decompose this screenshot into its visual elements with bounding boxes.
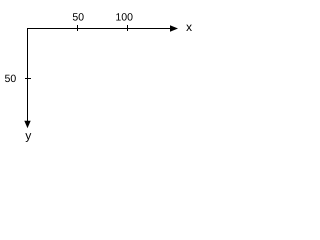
y-axis arrowhead	[24, 121, 30, 128]
x-axis arrowhead	[170, 25, 178, 31]
label 100 (x-axis)	[116, 13, 132, 20]
label y (axis name)	[25, 133, 31, 142]
label 50 (x-axis)	[73, 13, 84, 20]
y-axis tick 50	[25, 78, 31, 79]
x-axis tick 50	[77, 25, 78, 31]
x-axis line	[27, 28, 171, 29]
x-axis tick 100	[127, 25, 128, 31]
label 50 (y-axis)	[5, 75, 16, 82]
y-axis line	[27, 28, 28, 121]
label x (axis name)	[186, 25, 192, 31]
